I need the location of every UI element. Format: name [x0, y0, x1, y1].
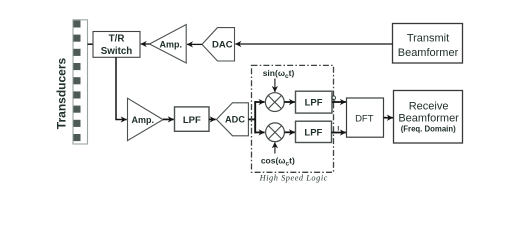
block LPF2 — [296, 91, 333, 113]
wire transducer to T/R switch — [88, 43, 94, 45]
svg-text:Transducers: Transducers — [54, 57, 68, 129]
label High Speed Logic — [259, 174, 328, 183]
block LPF1 — [175, 107, 210, 131]
svg-text:LPF: LPF — [305, 98, 323, 109]
wire LPF1 to ADC — [209, 118, 216, 120]
wire junction vertical — [254, 101, 256, 133]
svg-text:LPF: LPF — [183, 115, 201, 126]
wire I to DFT — [332, 132, 346, 134]
svg-text:Transmit: Transmit — [407, 32, 449, 44]
mixer M1 — [265, 93, 284, 112]
label cos(wct) — [261, 156, 295, 168]
wire mixer M2 to LPF3 — [284, 131, 295, 133]
label Transducers — [54, 57, 68, 129]
svg-text:DAC: DAC — [212, 40, 233, 51]
mixer M2 — [266, 123, 285, 142]
label sin(wct) — [263, 68, 295, 80]
wire junction to mixer M1 — [254, 101, 264, 103]
wire transmit beamformer to DAC — [235, 43, 392, 45]
label Q — [331, 95, 336, 102]
wire T/R switch down to receive amp — [116, 57, 127, 119]
block transmit beamformer — [393, 24, 463, 64]
wire Q to DFT — [332, 101, 346, 103]
svg-text:Amp.: Amp. — [160, 40, 183, 50]
wire receive amp to LPF1 — [163, 118, 174, 120]
wire DAC to transmit amp — [187, 43, 202, 45]
transducer array — [73, 20, 88, 144]
svg-text:I: I — [337, 126, 339, 133]
svg-text:(Freq. Domain): (Freq. Domain) — [401, 124, 456, 133]
svg-text:T/R: T/R — [109, 34, 125, 45]
block T/R switch — [93, 32, 140, 58]
wire ADC to junction — [248, 118, 256, 120]
svg-text:Beamformer: Beamformer — [398, 47, 459, 59]
wire transmit amp to T/R switch — [141, 43, 150, 45]
svg-text:DFT: DFT — [355, 113, 374, 124]
wire junction to mixer M2 — [254, 131, 264, 133]
ADC converter — [217, 103, 249, 136]
svg-text:High Speed Logic: High Speed Logic — [259, 174, 328, 183]
label I — [337, 126, 339, 133]
svg-text:Q: Q — [331, 95, 336, 102]
amplifier receive (Amp.) — [128, 98, 164, 140]
svg-text:LPF: LPF — [304, 128, 322, 139]
wire mixer M1 to LPF2 — [284, 101, 295, 103]
block DFT — [347, 98, 384, 137]
svg-text:ADC: ADC — [225, 115, 245, 125]
dashed box high speed logic — [252, 65, 334, 172]
svg-text:Switch: Switch — [101, 46, 133, 57]
wire sin to mixer M1 — [274, 79, 276, 93]
svg-text:Receive: Receive — [409, 101, 449, 113]
block receive beamformer — [394, 91, 463, 144]
DAC converter — [202, 28, 235, 61]
svg-text:Beamformer: Beamformer — [398, 113, 459, 125]
amplifier transmit (Amp.) — [150, 25, 187, 64]
block LPF3 — [296, 121, 332, 142]
wire DFT to receive beamformer — [384, 117, 393, 119]
wire cos to mixer M2 — [274, 142, 276, 153]
svg-text:Amp.: Amp. — [132, 115, 155, 125]
